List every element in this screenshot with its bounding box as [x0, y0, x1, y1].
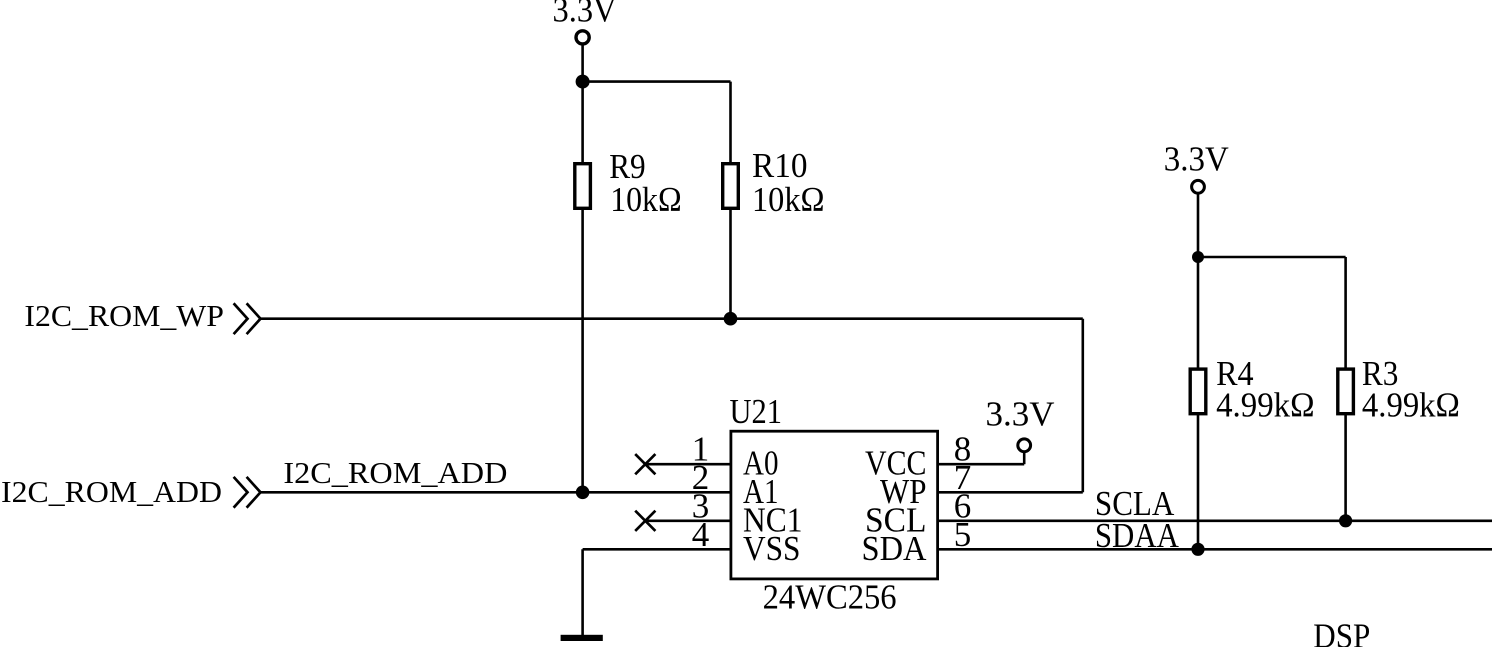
svg-text:10kΩ: 10kΩ — [610, 180, 682, 219]
wire rail down to R4 top — [1197, 257, 1200, 369]
svg-text:3.3V: 3.3V — [986, 394, 1055, 433]
ground bar — [561, 635, 603, 641]
connector chevron 2 (I2C_ROM_WP) — [247, 303, 261, 334]
power terminal circle (top left 3.3V) — [576, 31, 589, 44]
connector chevron 1 (I2C_ROM_WP) — [234, 303, 248, 334]
junction node WP/R10 — [724, 312, 738, 326]
wire top rail to R10 — [583, 80, 731, 83]
wire WP net vertical down to pin 7 — [1082, 319, 1085, 493]
wire R4 bottom down to SDA — [1197, 414, 1200, 550]
wire R9 bottom down to I2C_ROM_ADD net — [581, 208, 584, 492]
wire right rail to R3 — [1198, 256, 1346, 259]
wire R10 bottom down to WP net — [729, 208, 732, 319]
svg-text:24WC256: 24WC256 — [763, 578, 897, 617]
no-connect X pin 3 — [635, 511, 655, 531]
connector chevron 1 (I2C_ROM_ADD) — [234, 477, 248, 508]
wire VCC riser — [1023, 452, 1026, 465]
svg-text:SDAA: SDAA — [1095, 516, 1180, 555]
wire rail down to R10 top — [729, 82, 732, 163]
power terminal circle (right 3.3V) — [1192, 180, 1205, 193]
junction node (top rail split) — [576, 75, 590, 89]
wire I2C_ROM_ADD net to pin 2 — [261, 491, 731, 494]
wire right rail down — [1197, 194, 1200, 257]
junction node ADD/R9 — [576, 486, 590, 500]
wire WP net into pin 7 — [938, 491, 1083, 494]
svg-text:SDA: SDA — [862, 529, 928, 568]
wire from 3.3V terminal down — [581, 44, 584, 81]
wire pin 3 stub — [645, 519, 731, 522]
power terminal circle (VCC 3.3V) — [1018, 439, 1031, 452]
connector chevron 2 (I2C_ROM_ADD) — [247, 477, 261, 508]
svg-text:DSP: DSP — [1313, 616, 1370, 647]
no-connect X pin 1 — [635, 454, 655, 474]
wire I2C_ROM_WP net horizontal — [261, 317, 1083, 320]
resistor R9 body — [575, 164, 591, 209]
wire R3 bottom down to SCL — [1344, 414, 1347, 521]
resistor R10 body — [723, 164, 739, 209]
op IC U21 box — [731, 431, 938, 579]
svg-text:U21: U21 — [730, 392, 783, 431]
wire pin 8 VCC to 3.3V — [938, 463, 1025, 466]
svg-text:4.99kΩ: 4.99kΩ — [1216, 386, 1315, 425]
svg-text:3.3V: 3.3V — [553, 0, 617, 30]
svg-text:10kΩ: 10kΩ — [752, 180, 825, 219]
svg-text:I2C_ROM_WP: I2C_ROM_WP — [24, 298, 224, 333]
wire rail down to R9 top — [581, 82, 584, 163]
wire VSS down — [581, 549, 584, 637]
svg-text:4: 4 — [692, 515, 710, 554]
svg-text:3.3V: 3.3V — [1164, 139, 1229, 178]
junction node R3/SCL — [1339, 514, 1352, 527]
resistor R4 body — [1190, 369, 1206, 414]
junction node right rail split — [1192, 251, 1204, 263]
resistor R3 body — [1338, 369, 1354, 414]
svg-text:I2C_ROM_ADD: I2C_ROM_ADD — [1, 474, 222, 509]
junction node R4/SDA — [1191, 543, 1204, 556]
svg-text:VSS: VSS — [743, 529, 801, 568]
wire pin 4 VSS to ground — [583, 548, 731, 551]
wire rail down to R3 top — [1344, 257, 1347, 369]
wire SDA net — [938, 548, 1492, 551]
svg-text:4.99kΩ: 4.99kΩ — [1362, 386, 1460, 425]
wire pin 1 stub — [645, 463, 731, 466]
wire SCL net — [938, 519, 1492, 522]
svg-text:I2C_ROM_ADD: I2C_ROM_ADD — [283, 455, 507, 490]
